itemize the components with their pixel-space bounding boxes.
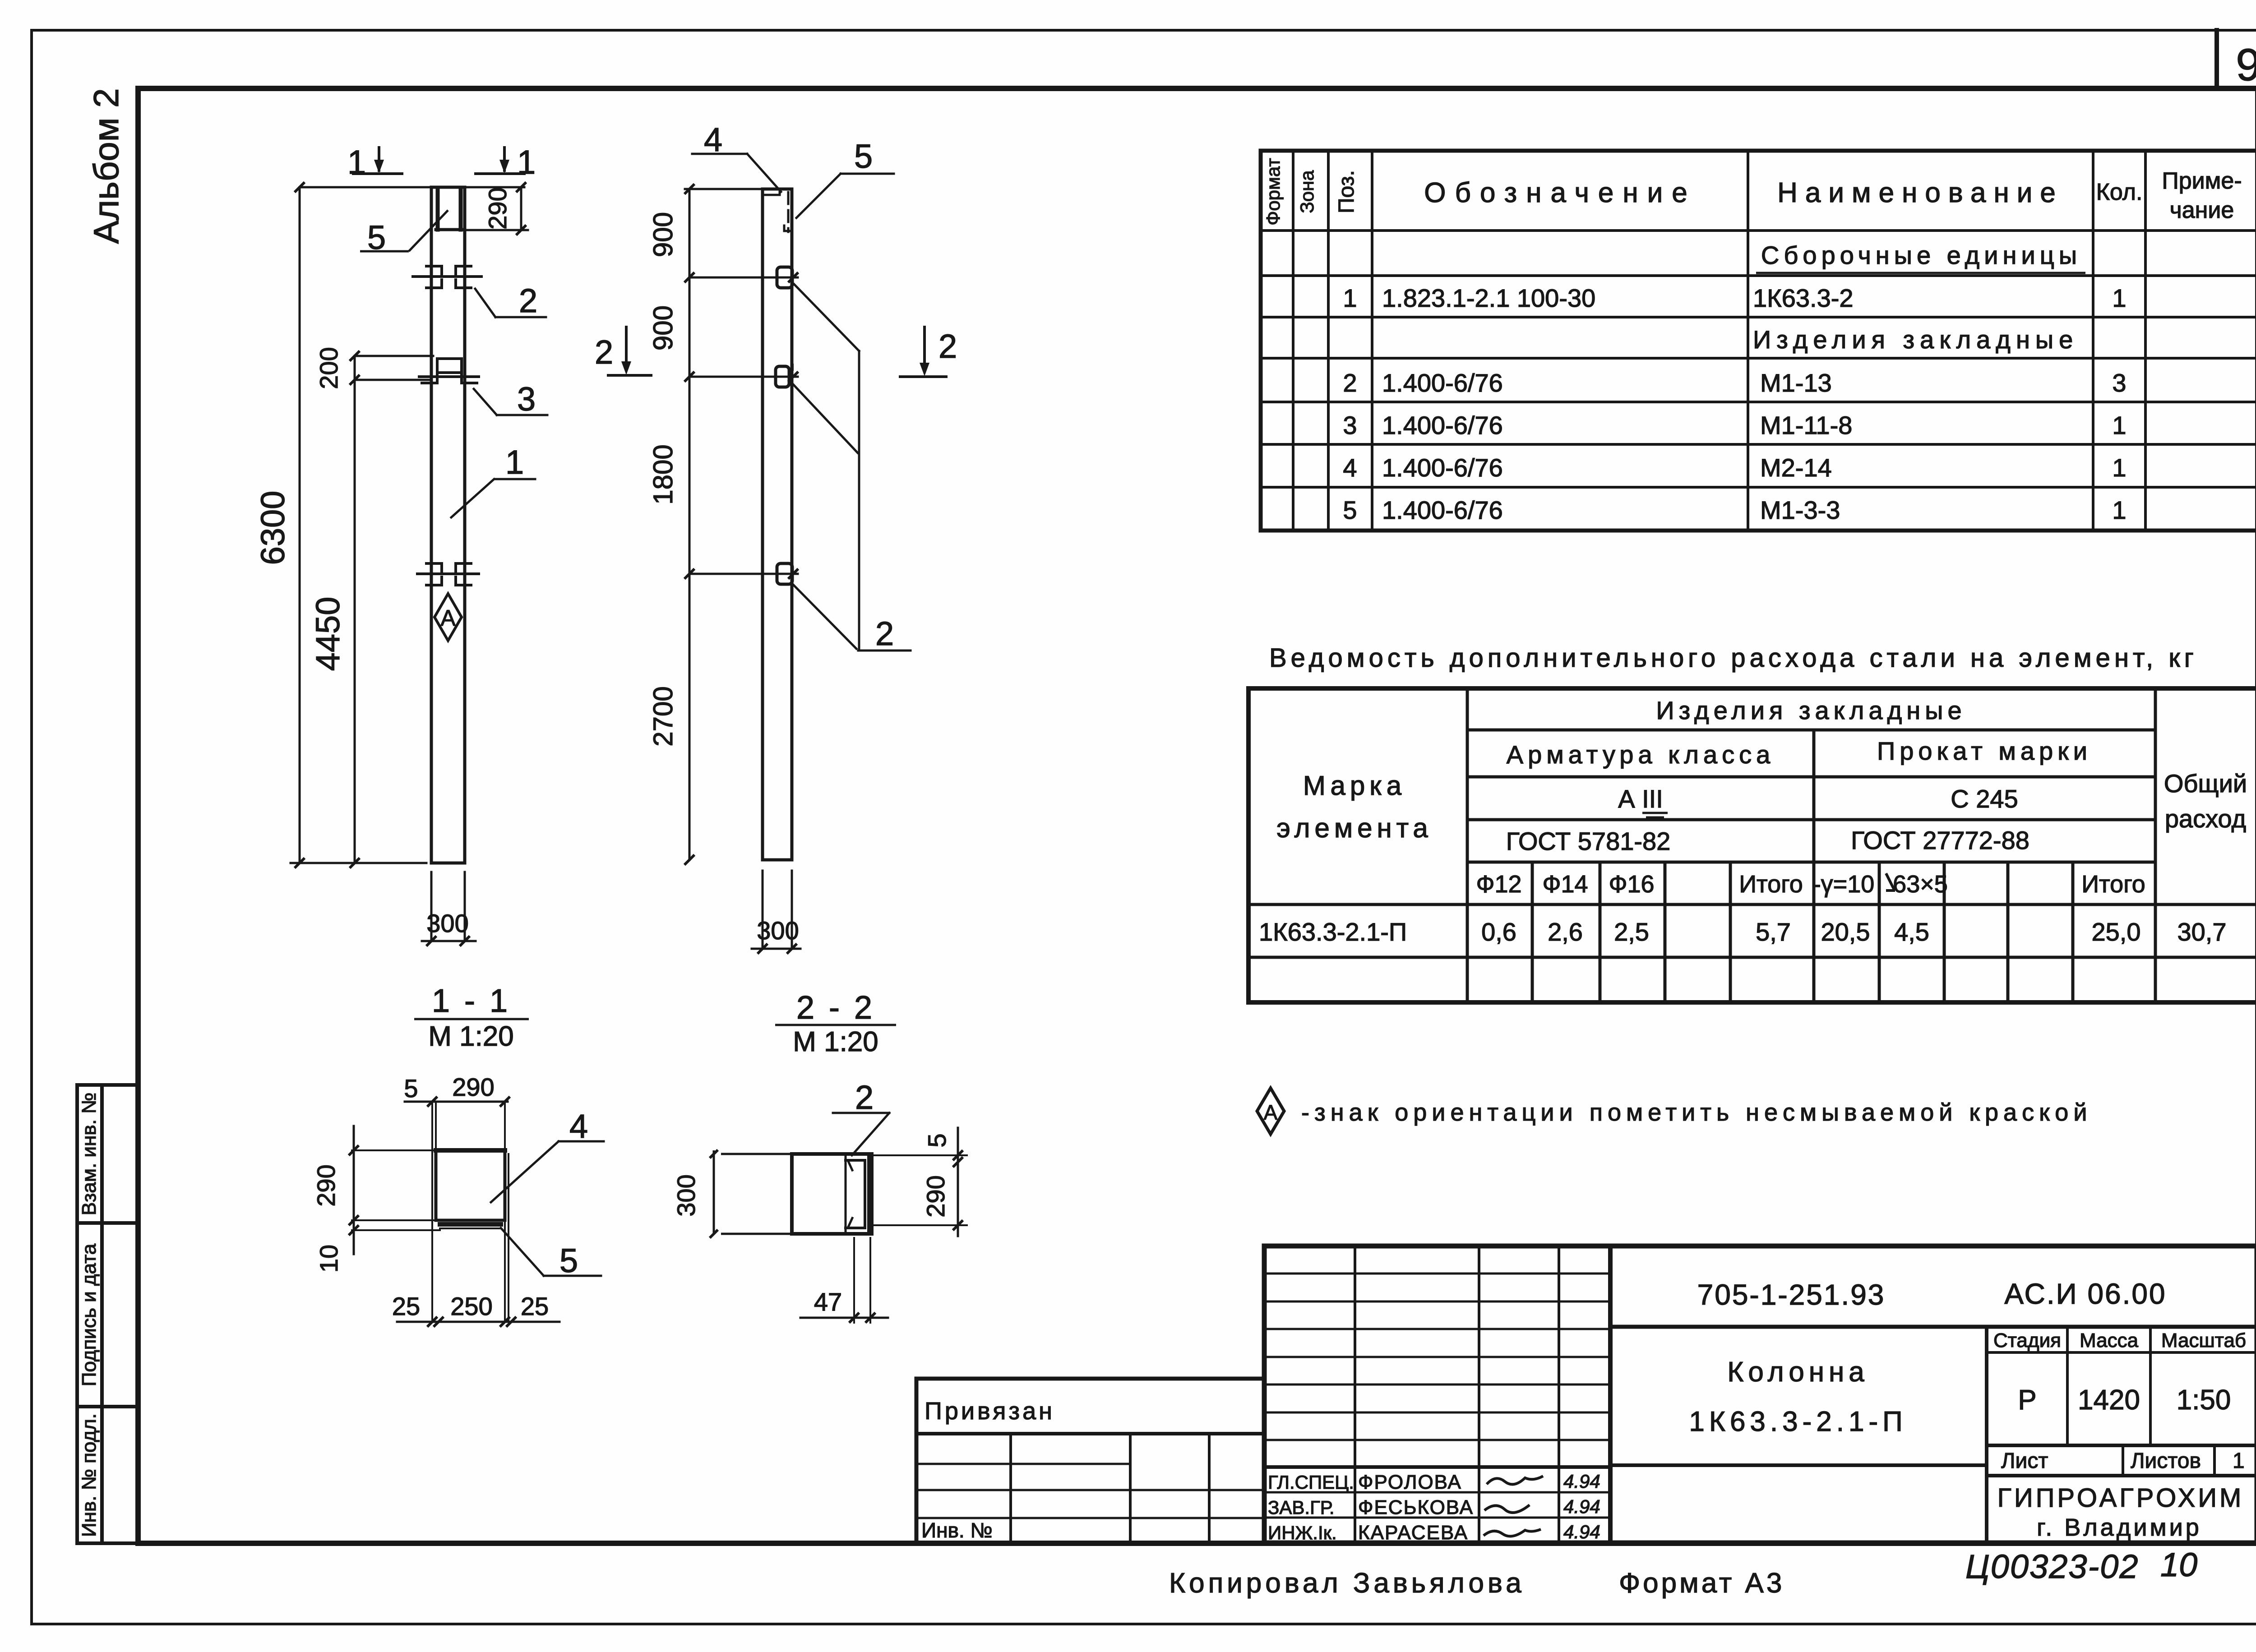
svg-text:4: 4 (704, 121, 722, 158)
svg-text:300: 300 (672, 1174, 700, 1216)
svg-text:Инв. № подл.: Инв. № подл. (78, 1413, 100, 1537)
svg-text:30,7: 30,7 (2177, 918, 2227, 946)
svg-text:1420: 1420 (2078, 1384, 2140, 1416)
svg-text:290: 290 (312, 1164, 340, 1206)
svg-text:0,6: 0,6 (1481, 918, 1516, 946)
svg-text:Масса: Масса (2080, 1329, 2139, 1352)
svg-text:С 245: С 245 (1951, 784, 2018, 813)
svg-text:6300: 6300 (254, 491, 291, 565)
svg-text:Привязан: Привязан (925, 1398, 1055, 1425)
leader item 2 (475, 289, 546, 317)
svg-text:Ф12: Ф12 (1476, 871, 1521, 898)
svg-text:г. Владимир: г. Владимир (2037, 1514, 2202, 1541)
SECTION 1-1 (312, 1073, 604, 1326)
svg-text:1800: 1800 (648, 444, 678, 504)
svg-text:Р: Р (2018, 1384, 2036, 1416)
svg-text:-γ=10: -γ=10 (1813, 871, 1875, 898)
svg-text:1: 1 (2112, 284, 2126, 312)
svg-text:1.400-6/76: 1.400-6/76 (1382, 411, 1503, 439)
orientation diamond symbol (1257, 1088, 1284, 1134)
svg-text:Подпись и дата: Подпись и дата (78, 1243, 100, 1386)
PARTS TABLE (specification) (1261, 151, 2256, 531)
svg-text:Ф14: Ф14 (1542, 871, 1588, 898)
TITLE BLOCK (916, 1246, 2256, 1599)
title block horizontals right part (1610, 1325, 2256, 1329)
svg-text:М 1:20: М 1:20 (428, 1021, 514, 1052)
svg-text:Лист: Лист (2001, 1449, 2048, 1473)
svg-text:5: 5 (559, 1242, 578, 1279)
svg-text:300: 300 (757, 916, 799, 945)
label 5 leader (501, 1228, 601, 1276)
svg-text:4.94: 4.94 (1563, 1521, 1600, 1542)
svg-text:Колонна: Колонна (1727, 1357, 1869, 1388)
svg-text:Сборочные единицы: Сборочные единицы (1761, 241, 2081, 269)
svg-text:1: 1 (2233, 1449, 2245, 1473)
plate item 2 middle (776, 366, 789, 387)
svg-text:М 1:20: М 1:20 (793, 1026, 878, 1057)
svg-text:1К63.3-2.1-П: 1К63.3-2.1-П (1689, 1406, 1907, 1437)
svg-text:Масштаб: Масштаб (2161, 1329, 2246, 1352)
svg-text:Обозначение: Обозначение (1424, 177, 1696, 208)
svg-text:ИНЖ.Iк.: ИНЖ.Iк. (1268, 1522, 1337, 1543)
svg-text:1:50: 1:50 (2177, 1384, 2231, 1416)
svg-text:4450: 4450 (309, 597, 347, 671)
dim 200 extension and line (355, 356, 433, 380)
svg-text:-знак ориентации пометить несм: -знак ориентации пометить несмываемой кр… (1301, 1099, 2092, 1126)
svg-text:А III: А III (1618, 784, 1663, 813)
svg-text:Приме-: Приме- (2162, 168, 2242, 194)
plate item 5 under square (440, 1222, 501, 1227)
svg-text:Ведомость дополнительного расх: Ведомость дополнительного расхода стали … (1269, 643, 2198, 673)
svg-text:900: 900 (648, 305, 678, 351)
section mark 1-1 right (476, 148, 524, 174)
label 5 leader (796, 174, 894, 218)
svg-text:25,0: 25,0 (2092, 918, 2141, 946)
svg-text:Ц00323-02: Ц00323-02 (1965, 1548, 2139, 1585)
svg-text:Итого: Итого (2081, 871, 2145, 898)
steel table sub column lines (1532, 862, 2073, 1002)
svg-text:4: 4 (569, 1107, 588, 1145)
svg-text:Наименование: Наименование (1777, 177, 2063, 208)
svg-text:1К63.3-2.1-П: 1К63.3-2.1-П (1259, 918, 1407, 946)
bottom width 300 dim (752, 871, 800, 949)
orientation diamond on column (435, 594, 462, 641)
svg-text:1 - 1: 1 - 1 (432, 983, 510, 1019)
svg-text:9: 9 (2236, 40, 2256, 90)
svg-text:Зона: Зона (1296, 170, 1318, 213)
svg-text:Прокат марки: Прокат марки (1877, 737, 2092, 765)
svg-text:Марка: Марка (1303, 771, 1406, 801)
channel boundary line (845, 1156, 847, 1232)
svg-text:элемента: элемента (1276, 813, 1433, 843)
svg-text:Формат: Формат (1262, 158, 1284, 225)
svg-text:2: 2 (595, 333, 613, 371)
left dim chain line (689, 189, 691, 860)
svg-text:1: 1 (517, 143, 536, 181)
svg-text:4.94: 4.94 (1563, 1496, 1600, 1517)
svg-text:Стадия: Стадия (1993, 1329, 2061, 1352)
svg-text:4,5: 4,5 (1894, 918, 1929, 946)
COLUMN VIEW 1 (front elevation) (254, 143, 547, 1052)
svg-text:5: 5 (923, 1133, 951, 1147)
leader lines from plates to label 2 (792, 284, 911, 651)
steel table outer border (1248, 688, 2256, 1002)
svg-text:Листов: Листов (2131, 1449, 2201, 1473)
svg-text:1К63.3-2: 1К63.3-2 (1753, 284, 1854, 312)
svg-text:4: 4 (1343, 453, 1357, 482)
NOTE (1257, 1088, 2092, 1134)
section mark 1-1 left (353, 148, 402, 174)
svg-text:10: 10 (314, 1245, 343, 1273)
right dim line 5/290 (957, 1128, 959, 1236)
svg-text:ГОСТ 5781-82: ГОСТ 5781-82 (1506, 827, 1671, 855)
svg-text:Ф16: Ф16 (1609, 871, 1654, 898)
dim ticks (685, 185, 693, 864)
svg-text:М1-11-8: М1-11-8 (1760, 411, 1852, 439)
leader item 1 (451, 479, 535, 517)
bottom dim line 25/250/25 (397, 1321, 559, 1323)
svg-text:5: 5 (1343, 496, 1357, 524)
svg-text:2,5: 2,5 (1614, 918, 1649, 946)
svg-text:250: 250 (450, 1292, 492, 1320)
label 4 leader (692, 154, 781, 192)
bottom extension lines (854, 1238, 870, 1323)
top dim line 5/290 (405, 1101, 508, 1103)
svg-text:1.400-6/76: 1.400-6/76 (1382, 496, 1503, 524)
section mark 2-2 left (608, 327, 651, 375)
svg-text:290: 290 (921, 1175, 950, 1217)
COLUMN VIEW 2 (side elevation) (595, 121, 957, 1057)
vertical extension lines (432, 1102, 509, 1322)
svg-text:Изделия закладные: Изделия закладные (1753, 325, 2078, 354)
svg-text:А: А (1264, 1101, 1278, 1124)
svg-text:300: 300 (426, 909, 468, 937)
svg-text:1: 1 (2112, 411, 2126, 439)
dim 290 vertical at top right (463, 187, 528, 230)
svg-text:КАРАСЕВА: КАРАСЕВА (1358, 1522, 1468, 1544)
svg-text:Инв. №: Инв. № (921, 1518, 993, 1542)
plate item 2 bottom (777, 563, 792, 584)
svg-text:ГОСТ 27772-88: ГОСТ 27772-88 (1851, 826, 2029, 854)
channel profile (846, 1160, 865, 1228)
parts table column lines (1293, 151, 2145, 531)
svg-text:25: 25 (521, 1292, 549, 1320)
svg-text:47: 47 (814, 1287, 842, 1316)
left grid rows (1264, 1274, 1610, 1440)
svg-text:25: 25 (392, 1292, 420, 1320)
bottom dim line 47 (800, 1317, 888, 1319)
section mark 2-2 right (900, 327, 946, 377)
svg-text:М1-13: М1-13 (1760, 369, 1832, 397)
section 1-1 square outline (436, 1148, 505, 1153)
steel table main column lines (1467, 688, 2155, 1002)
svg-text:1: 1 (505, 443, 524, 481)
svg-text:расход: расход (2165, 804, 2246, 833)
item 5 dashed channel at top right (787, 192, 790, 232)
svg-text:Поз.: Поз. (1335, 170, 1359, 213)
label 4 leader (491, 1141, 604, 1202)
SECTION 2-2 (672, 1079, 967, 1323)
svg-text:1.823.1-2.1 100-30: 1.823.1-2.1 100-30 (1382, 284, 1595, 312)
svg-text:ГИПРОАГРОХИМ: ГИПРОАГРОХИМ (1997, 1483, 2244, 1513)
bottom dim line (291, 862, 426, 864)
STEEL TABLE (Ведомость дополнительного расхода стали) (1248, 643, 2256, 1002)
svg-text:2: 2 (938, 328, 957, 365)
svg-text:1: 1 (1343, 284, 1357, 312)
name cell bottom (1610, 1463, 1987, 1467)
svg-text:М2-14: М2-14 (1760, 453, 1832, 482)
svg-text:200: 200 (314, 347, 343, 389)
extension lines to plates (689, 277, 798, 574)
svg-text:М1-3-3: М1-3-3 (1760, 496, 1840, 524)
right extension lines (874, 1155, 967, 1225)
svg-text:Копировал Завьялова: Копировал Завьялова (1169, 1568, 1525, 1599)
bottom width 300 dim (422, 872, 476, 941)
left stamp boxes (77, 1085, 138, 1543)
left dim line 300 (714, 1150, 792, 1234)
svg-text:1.400-6/76: 1.400-6/76 (1382, 369, 1503, 397)
svg-text:705-1-251.93: 705-1-251.93 (1697, 1278, 1886, 1311)
svg-text:АС.И 06.00: АС.И 06.00 (2004, 1278, 2166, 1310)
svg-text:3: 3 (1343, 411, 1357, 439)
svg-text:Взам. инв. №: Взам. инв. № (78, 1093, 100, 1216)
svg-text:2: 2 (1343, 369, 1357, 397)
svg-text:290: 290 (483, 187, 512, 229)
dim 6300 line (299, 187, 301, 863)
top dimension line (300, 186, 524, 189)
Привязан box (916, 1379, 1264, 1543)
svg-text:1: 1 (2112, 453, 2126, 482)
svg-text:чание: чание (2170, 197, 2234, 223)
svg-text:Кол.: Кол. (2096, 179, 2143, 205)
svg-text:Арматура класса: Арматура класса (1507, 740, 1775, 769)
plate item 2 top (777, 267, 792, 288)
dim 4450 line (354, 356, 356, 863)
svg-text:Изделия закладные: Изделия закладные (1656, 696, 1966, 724)
svg-text:А: А (440, 605, 456, 631)
svg-text:1.400-6/76: 1.400-6/76 (1382, 453, 1503, 482)
svg-text:Общий: Общий (2164, 769, 2247, 798)
svg-text:2700: 2700 (648, 686, 678, 746)
section 2-2 rectangle (792, 1154, 872, 1234)
left dim line 290/10 (353, 1126, 355, 1254)
svg-text:2: 2 (855, 1079, 874, 1116)
svg-text:ФРОЛОВА: ФРОЛОВА (1358, 1471, 1462, 1493)
svg-text:20,5: 20,5 (1821, 918, 1870, 946)
left extension lines (352, 1150, 440, 1230)
svg-text:5: 5 (404, 1074, 418, 1103)
svg-text:2: 2 (519, 282, 537, 319)
svg-text:10: 10 (2160, 1546, 2197, 1583)
label 2 leader (833, 1113, 889, 1155)
top plate item 4 edge (763, 189, 780, 195)
svg-text:1: 1 (2112, 496, 2126, 524)
top dimension line (685, 188, 792, 190)
svg-text:1: 1 (347, 143, 366, 181)
svg-text:2: 2 (875, 615, 894, 652)
title block main verticals (1355, 1246, 1559, 1543)
embedded plates item 2 lower (417, 563, 479, 585)
svg-text:Альбом 2: Альбом 2 (86, 88, 126, 244)
svg-text:3: 3 (517, 380, 536, 418)
svg-text:Формат А3: Формат А3 (1619, 1568, 1784, 1599)
steel table row lines (1467, 730, 2155, 862)
svg-text:Итого: Итого (1739, 871, 1803, 898)
parts table row lines (1261, 231, 2256, 487)
svg-text:63×5: 63×5 (1893, 871, 1948, 898)
svg-text:290: 290 (452, 1073, 494, 1101)
title block outer border (1264, 1246, 2256, 1543)
sheet number box divider (2214, 30, 2219, 88)
svg-text:900: 900 (648, 212, 678, 257)
embedded channel item 5 at top (438, 189, 461, 230)
svg-text:5: 5 (854, 138, 873, 175)
column 2 body outline (763, 189, 792, 860)
svg-text:2 - 2: 2 - 2 (796, 990, 875, 1026)
leader item 3 (474, 389, 547, 415)
column 1 body outline (431, 187, 465, 863)
signatures (squiggles) (1487, 1476, 1543, 1484)
svg-text:ГЛ.СПЕЦ.: ГЛ.СПЕЦ. (1268, 1472, 1354, 1493)
svg-text:2,6: 2,6 (1548, 918, 1583, 946)
svg-text:4.94: 4.94 (1563, 1471, 1600, 1492)
svg-text:3: 3 (2112, 369, 2126, 397)
svg-text:ЗАВ.ГР.: ЗАВ.ГР. (1268, 1497, 1335, 1518)
embedded plate item 3 (419, 359, 479, 383)
parts table outer border (1261, 151, 2256, 531)
svg-text:5,7: 5,7 (1756, 918, 1791, 946)
svg-text:ФЕСЬКОВА: ФЕСЬКОВА (1358, 1496, 1474, 1518)
embedded plates item 2 upper (413, 266, 481, 288)
